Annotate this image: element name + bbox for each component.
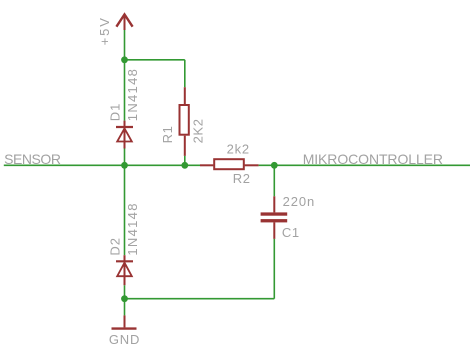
svg-text:+5V: +5V: [97, 16, 112, 45]
wire +5V to node A: [124, 30, 126, 60]
supply +5V symbol: [116, 14, 132, 30]
junction node on SENSOR at D1: [121, 162, 128, 169]
wire D2 to bottom node: [124, 285, 126, 298]
svg-text:1N4148: 1N4148: [125, 68, 140, 121]
bottom wire: [125, 298, 275, 300]
svg-text:2k2: 2k2: [227, 142, 250, 157]
net MIKROCONTROLLER wire: [259, 164, 470, 166]
svg-text:220n: 220n: [283, 194, 316, 209]
svg-text:D1: D1: [107, 103, 122, 121]
wire down to R1 pin: [184, 60, 186, 87]
resistor R2: [200, 159, 259, 169]
junction bottom node: [121, 295, 128, 302]
junction node A: [121, 56, 128, 63]
capacitor C1: [261, 196, 288, 239]
wire SENSOR node to D2: [124, 165, 126, 255]
ground GND symbol: [112, 315, 137, 328]
wire C1 to bottom wire: [273, 239, 275, 299]
junction node C: [271, 162, 278, 169]
wire node A to D1: [124, 60, 126, 121]
wire D1 to SENSOR node: [124, 149, 126, 166]
svg-text:SENSOR: SENSOR: [4, 151, 61, 167]
svg-text:GND: GND: [109, 332, 140, 347]
junction node B: [181, 162, 188, 169]
svg-text:MIKROCONTROLLER: MIKROCONTROLLER: [303, 151, 443, 167]
wire node A to R1 column: [125, 59, 185, 61]
svg-text:R2: R2: [233, 171, 251, 186]
diode D2: [116, 255, 133, 285]
svg-text:D2: D2: [107, 237, 122, 255]
diode D1: [116, 121, 133, 149]
wire R1 to node B: [184, 156, 186, 165]
svg-text:2K2: 2K2: [191, 118, 206, 143]
wire bottom node to GND: [124, 299, 126, 316]
svg-text:C1: C1: [282, 225, 300, 240]
wire node C to C1: [273, 165, 275, 196]
net SENSOR wire: [4, 164, 200, 166]
resistor R1: [180, 87, 189, 156]
svg-text:R1: R1: [160, 126, 175, 144]
svg-text:1N4148: 1N4148: [125, 202, 140, 255]
